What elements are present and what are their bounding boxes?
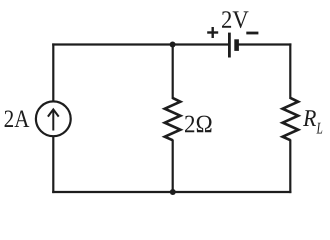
label RL (subscript L) bbox=[316, 123, 322, 134]
wire top-left segment (top wire from left corner to battery + plate) bbox=[52, 43, 229, 45]
wire top-right segment (battery - plate to right corner) bbox=[237, 43, 292, 45]
wire right vertical lower (RL to bottom corner) bbox=[289, 140, 291, 194]
junction node top (middle branch / top wire) bbox=[170, 42, 176, 48]
minus sign of battery bbox=[246, 32, 258, 35]
wire left vertical lower (current source to bottom corner) bbox=[52, 137, 54, 193]
resistor RL zigzag bbox=[283, 98, 299, 140]
battery V1 short plate (-) bbox=[234, 39, 239, 51]
label 2ohm bbox=[185, 116, 212, 133]
current source arrow bbox=[48, 109, 59, 130]
wire middle vertical upper (top node to 2ohm resistor) bbox=[172, 43, 174, 99]
label 2V bbox=[222, 11, 248, 28]
junction node bottom (middle branch / bottom wire) bbox=[170, 189, 176, 195]
label 2A bbox=[5, 110, 30, 127]
battery V1 long plate (+) bbox=[228, 33, 231, 58]
wire right vertical upper (top corner to RL) bbox=[289, 43, 291, 99]
wire left vertical upper (corner to current source) bbox=[52, 43, 54, 100]
wire bottom (full width) bbox=[52, 191, 291, 193]
resistor R1 2ohm zigzag bbox=[165, 98, 181, 140]
label RL (R) bbox=[303, 110, 316, 126]
wire middle vertical lower (2ohm resistor to bottom node) bbox=[172, 140, 174, 194]
current source I1 (2A) circle bbox=[36, 101, 71, 136]
plus sign of battery bbox=[207, 27, 218, 38]
